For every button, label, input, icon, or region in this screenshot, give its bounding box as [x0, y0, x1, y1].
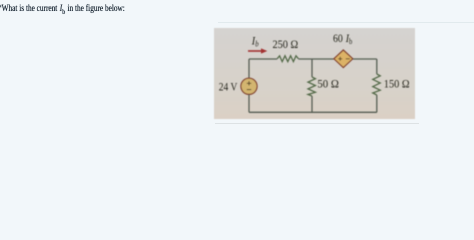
minus sign inside diamond	[346, 58, 350, 60]
wire: bottom rail	[249, 111, 377, 113]
wire: left branch upper (top-left corner down to 24V source)	[248, 59, 250, 78]
figure background panel	[214, 28, 415, 119]
resistor 250Ω (horizontal zigzag)	[277, 56, 298, 62]
svg-text:24 V: 24 V	[219, 79, 238, 93]
label 60 Ib	[333, 32, 353, 46]
resistor 150Ω (vertical zigzag)	[373, 74, 380, 95]
question text	[0, 3, 125, 16]
faint page rule above figure	[218, 21, 474, 24]
svg-text:150 Ω: 150 Ω	[384, 77, 410, 91]
wire: top-left segment (top-left corner to 250-ohm resistor)	[249, 58, 277, 60]
dependent source 60 Ib (diamond)	[334, 50, 353, 68]
wire: right branch upper (top-right corner down to 150-ohm)	[376, 59, 378, 74]
svg-text:50 Ω: 50 Ω	[317, 77, 339, 91]
wire: left branch lower (source to bottom-left corner)	[248, 94, 250, 112]
wire: middle branch lower (50-ohm to bottom rail)	[311, 96, 313, 112]
wire: top-right segment (diamond to top-right corner)	[353, 58, 377, 60]
wire: top middle segment (250-ohm to diamond source)	[298, 58, 334, 60]
faint shadow line below figure	[215, 123, 419, 124]
wire: right branch lower (150-ohm to bottom rail)	[376, 95, 378, 112]
current arrow Ib (red)	[248, 50, 262, 52]
plus sign inside diamond	[338, 57, 342, 61]
plus sign inside source	[247, 81, 251, 85]
current label Ib	[251, 35, 259, 49]
minus sign inside source	[247, 89, 251, 91]
wire: middle branch upper (top rail tee down to 50-ohm)	[311, 59, 313, 77]
voltage source 24 V (circle)	[241, 78, 257, 94]
svg-text:250 Ω: 250 Ω	[273, 37, 299, 51]
resistor 50Ω (vertical zigzag)	[308, 77, 315, 96]
